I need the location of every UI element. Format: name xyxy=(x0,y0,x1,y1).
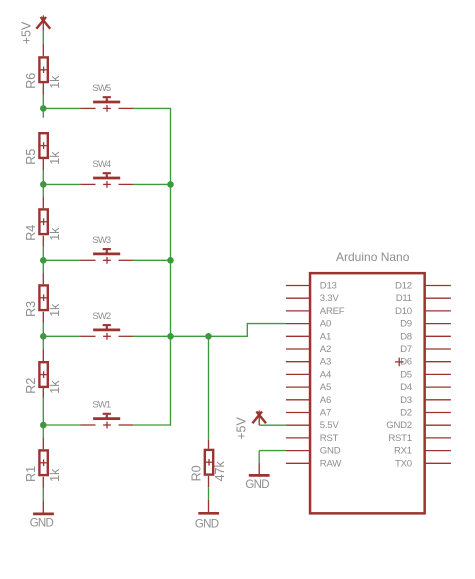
resistor R2 value 1k xyxy=(24,362,62,394)
svg-text:SW4: SW4 xyxy=(92,159,111,170)
pin A1 (left) of U1 xyxy=(286,331,331,342)
svg-text:TX0: TX0 xyxy=(395,458,412,469)
pin A4 (left) of U1 xyxy=(286,369,332,380)
IC U1 Arduino Nano body xyxy=(310,250,425,514)
pin A7 (left) of U1 xyxy=(286,408,331,419)
wire net tap down to R0 xyxy=(208,336,210,439)
pin A0 (left) of U1 xyxy=(286,319,331,330)
svg-text:GND2: GND2 xyxy=(386,420,412,431)
wire to A0 pin xyxy=(247,323,286,325)
pin D13 (left) of U1 xyxy=(286,281,337,292)
wire net from junction to SW5 xyxy=(43,107,80,109)
wire net from junction to SW2 xyxy=(43,335,80,337)
svg-text:A3: A3 xyxy=(320,357,331,368)
ground GND at Arduino xyxy=(245,475,269,491)
svg-text:D2: D2 xyxy=(400,408,412,419)
wire net bus to riser xyxy=(171,335,248,337)
svg-text:Arduino Nano: Arduino Nano xyxy=(336,250,410,264)
junction on switch bus xyxy=(167,181,174,188)
switch SW2 (pushbutton) xyxy=(81,311,134,340)
resistor R1 value 1k xyxy=(24,450,62,482)
svg-text:GND: GND xyxy=(30,517,54,529)
wire pin segments of resistor chain xyxy=(42,44,44,514)
svg-text:SW3: SW3 xyxy=(92,235,111,246)
svg-text:1k: 1k xyxy=(48,151,62,165)
resistor R3 value 1k xyxy=(24,285,62,317)
ground GND under R1 xyxy=(30,514,54,530)
pin GND (left) of U1 xyxy=(286,446,341,457)
pin D3 (right) of U1 xyxy=(400,395,451,406)
junction at resistor chain row SW3 xyxy=(40,257,47,264)
svg-text:D5: D5 xyxy=(400,369,412,380)
switch SW1 (pushbutton) xyxy=(81,400,134,429)
svg-text:SW1: SW1 xyxy=(92,400,111,411)
pin D2 (right) of U1 xyxy=(400,408,451,419)
wire net from SW2 to bus xyxy=(133,335,171,337)
pin RST (left) of U1 xyxy=(286,433,339,444)
svg-text:A4: A4 xyxy=(320,369,332,380)
wire R0 bottom pin xyxy=(208,476,210,488)
svg-text:1k: 1k xyxy=(48,75,62,89)
svg-text:RAW: RAW xyxy=(320,458,342,469)
svg-text:A5: A5 xyxy=(320,382,331,393)
switch SW4 (pushbutton) xyxy=(81,159,134,188)
svg-text:1k: 1k xyxy=(48,227,62,241)
svg-text:47k: 47k xyxy=(213,460,227,481)
svg-text:3.3V: 3.3V xyxy=(320,293,340,304)
pin D10 (right) of U1 xyxy=(395,306,451,317)
wire net from SW3 to bus xyxy=(133,259,171,261)
svg-text:SW5: SW5 xyxy=(92,83,111,94)
wire net from SW5 to bus xyxy=(133,107,171,109)
svg-text:1k: 1k xyxy=(48,380,62,394)
junction on switch bus xyxy=(167,257,174,264)
svg-text:A0: A0 xyxy=(320,319,331,330)
resistor R5 value 1k xyxy=(24,133,62,165)
svg-text:+5V: +5V xyxy=(19,21,33,44)
pin RST1 (right) of U1 xyxy=(388,433,451,444)
wire net from junction to SW1 xyxy=(43,424,80,426)
wire GND pin segment xyxy=(208,500,210,514)
wire net N$ chain vertical green segments xyxy=(42,31,44,501)
svg-text:RST: RST xyxy=(320,433,339,444)
pin A6 (left) of U1 xyxy=(286,395,331,406)
svg-text:R4: R4 xyxy=(24,225,38,241)
svg-text:A1: A1 xyxy=(320,331,331,342)
svg-text:+5V: +5V xyxy=(235,417,249,440)
svg-text:R0: R0 xyxy=(189,465,203,481)
svg-text:R5: R5 xyxy=(24,149,38,165)
svg-text:A7: A7 xyxy=(320,408,331,419)
wire riser up xyxy=(246,323,248,337)
resistor R4 value 1k xyxy=(24,209,62,240)
junction at resistor chain row SW4 xyxy=(40,181,47,188)
pin D7 (right) of U1 xyxy=(400,344,451,355)
svg-text:A2: A2 xyxy=(320,344,331,355)
pin D6 (right) of U1 xyxy=(400,357,451,368)
wire net from junction to SW4 xyxy=(43,183,80,185)
svg-text:5.5V: 5.5V xyxy=(320,420,340,431)
svg-text:RST1: RST1 xyxy=(388,433,412,444)
svg-text:D11: D11 xyxy=(396,293,412,304)
svg-text:D7: D7 xyxy=(400,344,412,355)
pin D5 (right) of U1 xyxy=(400,369,451,380)
pin D12 (right) of U1 xyxy=(395,281,451,292)
svg-text:1k: 1k xyxy=(48,303,62,317)
svg-text:R6: R6 xyxy=(24,73,38,89)
svg-text:D8: D8 xyxy=(400,331,412,342)
wire net from SW1 to bus xyxy=(133,424,171,426)
svg-text:D12: D12 xyxy=(395,281,412,292)
pin RAW (left) of U1 xyxy=(286,458,342,469)
svg-text:R1: R1 xyxy=(24,466,38,482)
svg-text:AREF: AREF xyxy=(320,306,345,317)
svg-text:D13: D13 xyxy=(320,281,337,292)
svg-text:D10: D10 xyxy=(395,306,412,317)
svg-text:D9: D9 xyxy=(400,319,412,330)
pin TX0 (right) of U1 xyxy=(395,458,451,469)
wire GND vertical xyxy=(258,451,260,464)
wire R0 top pin xyxy=(208,440,210,449)
junction at R0 tap xyxy=(205,333,212,340)
pin A2 (left) of U1 xyxy=(286,344,331,355)
svg-text:R3: R3 xyxy=(24,301,38,317)
junction at resistor chain row SW1 xyxy=(40,422,47,429)
svg-text:GND: GND xyxy=(245,479,269,491)
wire vertical bus joining switch outputs xyxy=(170,108,172,426)
power +5V symbol P1 xyxy=(19,15,50,44)
pin A5 (left) of U1 xyxy=(286,382,331,393)
pin GND2 (right) of U1 xyxy=(386,420,451,431)
pin 5.5V (left) of U1 xyxy=(286,420,339,431)
junction at resistor chain row SW5 xyxy=(40,105,47,112)
wire net R0 to GND xyxy=(208,487,210,499)
switch SW5 (pushbutton) xyxy=(81,83,134,112)
pin RX1 (right) of U1 xyxy=(394,446,451,457)
pin D8 (right) of U1 xyxy=(400,331,451,342)
svg-text:R2: R2 xyxy=(24,378,38,394)
origin cross of U1 xyxy=(395,358,404,367)
junction at resistor chain row SW2 xyxy=(40,333,47,340)
wire net from junction to SW3 xyxy=(43,259,80,261)
pin 3.3V (left) of U1 xyxy=(286,293,339,304)
junction on switch bus xyxy=(167,333,174,340)
wire +5V to 5.5V pin xyxy=(259,424,286,426)
pin A3 (left) of U1 xyxy=(286,357,331,368)
pin D4 (right) of U1 xyxy=(400,382,451,393)
pin D11 (right) of U1 xyxy=(396,293,451,304)
resistor R0 value 47k xyxy=(189,450,227,482)
svg-text:GND: GND xyxy=(195,519,219,531)
svg-text:A6: A6 xyxy=(320,395,331,406)
power +5V symbol at Arduino xyxy=(235,411,267,440)
svg-text:D4: D4 xyxy=(400,382,413,393)
pin AREF (left) of U1 xyxy=(286,306,345,317)
pin D9 (right) of U1 xyxy=(400,319,451,330)
resistor R6 value 1k xyxy=(24,57,62,88)
svg-text:1k: 1k xyxy=(48,468,62,482)
wire GND symbol pin xyxy=(258,463,260,475)
svg-text:SW2: SW2 xyxy=(92,311,111,322)
switch SW3 (pushbutton) xyxy=(81,235,134,264)
svg-text:D3: D3 xyxy=(400,395,412,406)
wire GND pin to GND symbol horizontal xyxy=(259,450,286,452)
wire net from SW4 to bus xyxy=(133,183,171,185)
ground GND under R0 xyxy=(195,513,219,530)
svg-text:GND: GND xyxy=(320,446,341,457)
svg-text:RX1: RX1 xyxy=(394,446,412,457)
